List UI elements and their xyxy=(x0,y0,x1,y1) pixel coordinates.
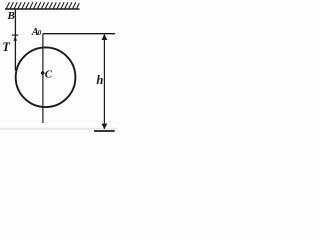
svg-text:h: h xyxy=(96,73,103,87)
svg-text:C: C xyxy=(45,68,53,80)
svg-text:0: 0 xyxy=(38,29,42,37)
svg-text:B: B xyxy=(7,10,15,22)
